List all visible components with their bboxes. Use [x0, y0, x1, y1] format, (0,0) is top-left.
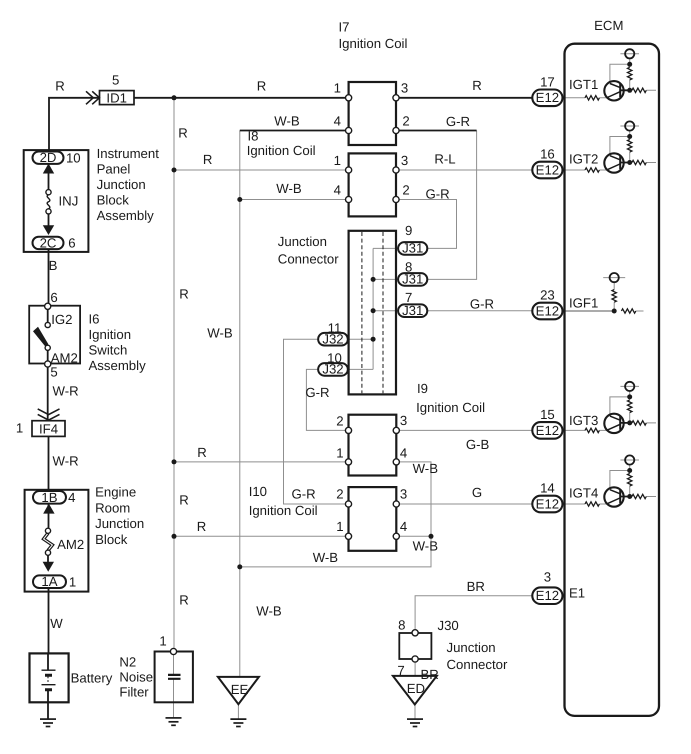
svg-text:I6: I6	[89, 311, 100, 326]
svg-text:N2: N2	[119, 655, 136, 670]
svg-text:7: 7	[405, 290, 412, 305]
svg-text:BR: BR	[467, 579, 485, 594]
svg-text:1: 1	[16, 421, 23, 436]
svg-text:I10: I10	[249, 484, 267, 499]
svg-text:9: 9	[405, 223, 412, 238]
svg-text:W-B: W-B	[274, 114, 300, 129]
svg-text:G-R: G-R	[292, 487, 316, 502]
svg-text:W: W	[50, 616, 63, 631]
svg-text:6: 6	[68, 236, 75, 251]
svg-text:1: 1	[336, 446, 343, 461]
svg-text:4: 4	[68, 490, 75, 505]
svg-text:W-R: W-R	[53, 454, 79, 469]
svg-text:17: 17	[540, 74, 555, 89]
svg-text:Block: Block	[95, 532, 128, 547]
svg-text:W-B: W-B	[313, 550, 339, 565]
svg-text:E12: E12	[536, 588, 559, 603]
svg-text:J31: J31	[402, 241, 423, 256]
svg-text:Junction: Junction	[447, 640, 496, 655]
svg-text:R: R	[197, 519, 207, 534]
svg-text:E12: E12	[536, 496, 559, 511]
svg-text:I8: I8	[248, 129, 259, 144]
svg-text:4: 4	[334, 183, 341, 198]
svg-text:8: 8	[398, 618, 405, 633]
svg-text:Connector: Connector	[447, 657, 508, 672]
svg-text:Battery: Battery	[71, 671, 113, 686]
svg-text:AM2: AM2	[57, 537, 84, 552]
svg-text:ECM: ECM	[594, 18, 623, 33]
svg-text:G-B: G-B	[466, 437, 490, 452]
svg-text:10: 10	[327, 351, 342, 366]
svg-text:Ignition Coil: Ignition Coil	[247, 143, 316, 158]
svg-text:I9: I9	[417, 381, 428, 396]
svg-text:1: 1	[336, 519, 343, 534]
svg-text:2: 2	[336, 487, 343, 502]
svg-text:E12: E12	[536, 423, 559, 438]
svg-text:2: 2	[402, 183, 409, 198]
svg-text:G: G	[472, 485, 482, 500]
svg-text:E12: E12	[536, 162, 559, 177]
svg-text:R: R	[178, 126, 188, 141]
svg-text:1A: 1A	[41, 574, 57, 589]
svg-text:7: 7	[397, 663, 404, 678]
svg-text:8: 8	[405, 259, 412, 274]
svg-text:1: 1	[159, 634, 166, 649]
svg-text:3: 3	[400, 487, 407, 502]
svg-text:R: R	[257, 79, 267, 94]
svg-text:G-R: G-R	[426, 187, 450, 202]
svg-text:Switch: Switch	[89, 342, 128, 357]
svg-text:IGT4: IGT4	[569, 486, 598, 501]
svg-text:16: 16	[540, 147, 555, 162]
svg-text:W-B: W-B	[413, 538, 439, 553]
svg-text:W-B: W-B	[276, 181, 302, 196]
svg-text:1: 1	[334, 80, 341, 95]
svg-text:EE: EE	[231, 682, 249, 697]
svg-text:ID1: ID1	[106, 91, 127, 106]
svg-text:R: R	[55, 79, 65, 94]
svg-text:J30: J30	[438, 618, 459, 633]
svg-text:6: 6	[50, 290, 57, 305]
svg-text:Junction: Junction	[278, 234, 327, 249]
svg-text:W-B: W-B	[207, 325, 233, 340]
svg-text:3: 3	[401, 153, 408, 168]
svg-text:Junction: Junction	[95, 516, 144, 531]
svg-text:E12: E12	[536, 303, 559, 318]
svg-text:IGT2: IGT2	[569, 152, 598, 167]
svg-text:Connector: Connector	[278, 251, 339, 266]
svg-text:15: 15	[540, 407, 555, 422]
svg-text:R: R	[179, 287, 189, 302]
svg-text:W-B: W-B	[256, 603, 282, 618]
svg-text:2C: 2C	[40, 235, 57, 250]
svg-text:3: 3	[401, 81, 408, 96]
svg-text:ED: ED	[407, 681, 425, 696]
svg-text:1: 1	[69, 575, 76, 590]
svg-text:3: 3	[544, 569, 551, 584]
svg-text:G-R: G-R	[305, 385, 329, 400]
svg-text:G-R: G-R	[446, 114, 470, 129]
svg-text:Ignition Coil: Ignition Coil	[339, 36, 408, 51]
svg-text:Assembly: Assembly	[97, 208, 155, 223]
svg-text:4: 4	[400, 446, 407, 461]
svg-text:2: 2	[402, 114, 409, 129]
svg-text:W-B: W-B	[413, 461, 439, 476]
svg-text:B: B	[49, 258, 58, 273]
svg-text:I7: I7	[339, 20, 350, 35]
svg-text:R: R	[472, 78, 482, 93]
svg-text:3: 3	[400, 413, 407, 428]
svg-text:4: 4	[334, 113, 341, 128]
svg-text:R: R	[197, 445, 207, 460]
svg-text:2: 2	[336, 413, 343, 428]
svg-text:W-R: W-R	[53, 384, 79, 399]
svg-text:14: 14	[540, 481, 555, 496]
svg-text:23: 23	[540, 288, 555, 303]
svg-text:IG2: IG2	[51, 312, 72, 327]
svg-text:INJ: INJ	[59, 194, 79, 209]
svg-text:IGT1: IGT1	[569, 77, 598, 92]
svg-text:R: R	[179, 593, 189, 608]
svg-text:1: 1	[334, 153, 341, 168]
svg-text:E12: E12	[536, 90, 559, 105]
svg-text:G-R: G-R	[470, 297, 494, 312]
svg-text:Ignition Coil: Ignition Coil	[416, 400, 485, 415]
svg-text:R-L: R-L	[434, 151, 455, 166]
svg-text:11: 11	[328, 321, 342, 336]
svg-text:4: 4	[400, 519, 407, 534]
svg-text:2D: 2D	[40, 150, 57, 165]
svg-text:10: 10	[66, 150, 81, 165]
svg-text:5: 5	[112, 73, 119, 88]
svg-text:1B: 1B	[41, 490, 57, 505]
svg-text:J31: J31	[402, 303, 423, 318]
svg-text:Ignition: Ignition	[89, 327, 132, 342]
svg-text:Instrument: Instrument	[97, 146, 160, 161]
svg-text:IGT3: IGT3	[569, 413, 598, 428]
svg-text:R: R	[203, 152, 213, 167]
svg-text:5: 5	[50, 364, 57, 379]
svg-text:Engine: Engine	[95, 485, 136, 500]
svg-text:Ignition Coil: Ignition Coil	[249, 503, 318, 518]
svg-text:Panel: Panel	[97, 162, 131, 177]
svg-text:E1: E1	[569, 586, 585, 601]
svg-text:Assembly: Assembly	[89, 358, 147, 373]
svg-text:Room: Room	[95, 500, 130, 515]
svg-text:Noise: Noise	[119, 670, 153, 685]
svg-text:Filter: Filter	[119, 685, 149, 700]
svg-text:Junction: Junction	[97, 177, 146, 192]
svg-text:BR: BR	[421, 667, 439, 682]
svg-text:IF4: IF4	[39, 422, 58, 437]
svg-text:Block: Block	[97, 193, 130, 208]
svg-text:IGF1: IGF1	[569, 296, 598, 311]
svg-text:R: R	[179, 493, 189, 508]
